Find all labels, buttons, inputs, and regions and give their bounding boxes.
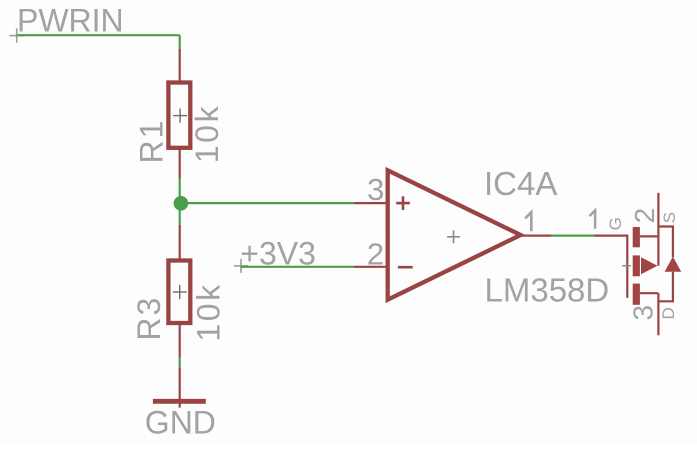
svg-text:10k: 10k [189,104,225,163]
svg-text:10k: 10k [191,282,227,341]
ground symbol GND [153,368,206,408]
mosfet channel stub (body) [633,255,640,276]
wire net out (op-amp to Q gate) [552,235,594,237]
mosfet channel stub (drain side) [633,227,640,247]
svg-text:R3: R3 [131,296,167,341]
mosfet body arrow [641,257,658,274]
wire net N$1 vertical (R1 to R3) [179,178,181,225]
resistor R3 [168,225,190,358]
origin cross R1 [173,109,187,123]
mosfet source connection [640,235,659,237]
mosfet channel stub (source side) [633,284,640,305]
mosfet drain connection [640,292,659,294]
mosfet source lead (pin 2, S) [657,193,659,266]
op-amp IC4A pin 2 lead [354,266,389,268]
wire net N$1 horizontal (to op-amp +IN) [181,202,354,204]
origin cross IC4A [447,230,460,243]
svg-text:R1: R1 [133,119,169,164]
op-amp minus input marker [398,266,413,269]
svg-text:GND: GND [145,405,216,441]
op-amp IC4A pin 3 lead [354,202,389,204]
svg-text:S: S [660,212,679,223]
pin marker cross +3V3 [234,259,248,273]
wire PWRIN vertical drop [179,35,181,49]
junction dot [174,196,189,211]
wire net +3V3 (to op-amp -IN) [240,266,354,268]
resistor R1 [168,49,190,179]
svg-text:PWRIN: PWRIN [17,2,124,38]
svg-text:3: 3 [367,172,384,207]
mosfet body diode [665,257,682,272]
wire net GND segment [179,357,181,367]
svg-text:LM358D: LM358D [485,271,610,308]
mosfet body-diode branch lower [658,272,673,302]
mosfet body-diode branch upper [658,227,673,258]
svg-text:2: 2 [629,208,660,224]
svg-text:2: 2 [367,236,384,271]
mosfet Q1 gate lead [594,235,629,237]
op-amp output pin 1 lead [521,235,552,237]
wire PWRIN horizontal [17,34,180,36]
pin number 1 (op-amp out) [525,212,531,231]
svg-text:IC4A: IC4A [484,165,557,202]
svg-text:D: D [659,307,678,319]
mosfet drain lead (pin 3, D) [657,293,659,335]
svg-text:3: 3 [628,305,659,321]
svg-text:G: G [606,217,625,230]
origin cross R3 [173,285,187,299]
op-amp U IC4A triangle [388,170,521,299]
mosfet gate bar [626,236,628,298]
pin marker cross PWRIN [10,28,25,42]
op-amp plus input marker [396,196,410,210]
origin cross Q1 [622,261,631,270]
pin number 1 (gate) [589,210,595,228]
